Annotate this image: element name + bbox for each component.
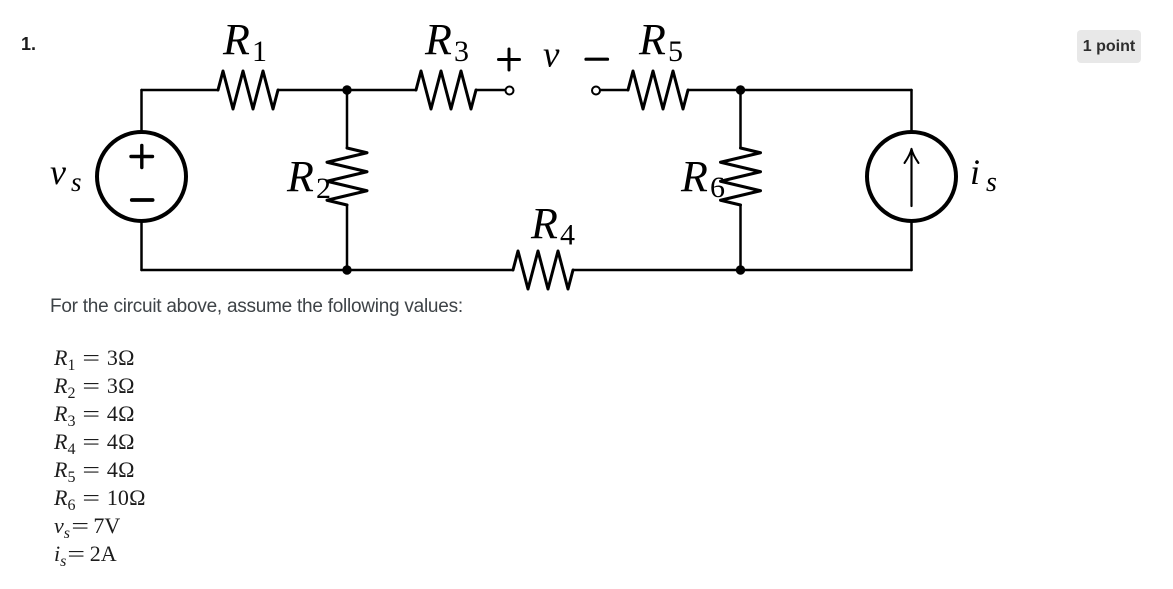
svg-text:2: 2 [316, 172, 331, 205]
voltage source vs circle [97, 132, 186, 221]
values list [54, 344, 146, 568]
resistor R6 [721, 148, 761, 205]
svg-text:i: i [970, 152, 980, 192]
svg-text:3: 3 [454, 35, 469, 68]
resistor R1 [218, 71, 278, 109]
svg-text:R: R [680, 152, 708, 201]
svg-text:R: R [286, 152, 314, 201]
svg-text:v: v [543, 35, 560, 76]
wire R2 branch bottom [346, 205, 349, 270]
wire right vertical bottom [910, 222, 913, 270]
plus label at terminal [499, 49, 520, 70]
node B junction dot [736, 85, 745, 94]
points badge [1077, 30, 1141, 63]
node A bottom junction dot [342, 265, 351, 274]
svg-text:R: R [638, 15, 666, 64]
wire R6 branch top [739, 90, 742, 148]
svg-text:s: s [71, 167, 82, 197]
svg-text:R: R [424, 15, 452, 64]
wire bottom from source to R4 [142, 269, 514, 272]
wire R1 to node A [278, 89, 416, 92]
wire right terminal to R5 [601, 89, 629, 92]
wire left vertical top [140, 90, 143, 131]
is arrow head [905, 149, 919, 163]
node A junction dot [342, 85, 351, 94]
vs plus sign [131, 146, 153, 168]
wire right vertical top [910, 90, 913, 131]
is arrow shaft [910, 153, 912, 207]
paragraph [50, 296, 463, 318]
wire R2 branch top [346, 90, 349, 148]
svg-text:R: R [530, 199, 558, 248]
vs minus sign [132, 198, 153, 202]
current source is circle [867, 132, 956, 221]
svg-text:4: 4 [560, 219, 575, 252]
resistor R4 [513, 251, 573, 289]
resistor R2 [327, 148, 367, 205]
minus label at terminal [586, 58, 608, 61]
wire left vertical bottom [140, 222, 143, 270]
svg-text:6: 6 [710, 171, 725, 204]
svg-text:R: R [222, 15, 250, 64]
resistor R5 [628, 71, 688, 109]
wire R5 to top-right corner [688, 89, 912, 92]
wire R3 to left terminal [476, 89, 505, 92]
wire R6 branch bottom [739, 205, 742, 270]
question number [21, 34, 36, 55]
terminal + open circle [506, 87, 514, 95]
wire R4 to bottom-right corner [573, 269, 912, 272]
resistor R3 [416, 71, 476, 109]
node B bottom junction dot [736, 265, 745, 274]
svg-text:v: v [50, 152, 66, 192]
svg-text:1: 1 [252, 35, 267, 68]
terminal - open circle [592, 87, 600, 95]
wire top-left horizontal [142, 89, 219, 92]
svg-text:s: s [986, 167, 997, 198]
svg-text:5: 5 [668, 35, 683, 68]
